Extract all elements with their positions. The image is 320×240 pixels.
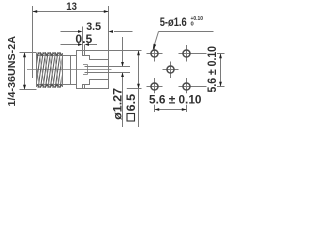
arrow 5.6 vertical down xyxy=(219,82,222,87)
crosshair hole center xyxy=(163,62,179,79)
insulator face edge xyxy=(70,56,72,84)
thread crest scallops bottom xyxy=(37,85,62,87)
extension line square 6.5 top xyxy=(109,50,142,52)
arrow 13 right xyxy=(104,10,109,13)
hole center xyxy=(167,66,174,73)
extension line 13 right xyxy=(108,6,110,50)
extension line 0.5 left xyxy=(82,35,84,56)
svg-text:5-ø1.6: 5-ø1.6 xyxy=(160,17,187,29)
svg-text:0: 0 xyxy=(191,21,194,27)
thread cross hatching light xyxy=(35,52,65,88)
extension line 5.6 vertical bottom xyxy=(195,86,225,88)
crosshair hole top-right xyxy=(179,45,196,62)
contact slot detail xyxy=(83,65,88,75)
arrow 3.5 left xyxy=(78,30,83,33)
body outline square flange xyxy=(77,51,109,89)
extension line 0.5 right xyxy=(84,45,86,56)
dimension line 13 xyxy=(33,11,109,13)
dimension line 0.5 right stub xyxy=(89,44,97,46)
dimension line 0.5 left stub xyxy=(61,44,79,46)
centerline of connector axis xyxy=(27,69,112,71)
hole bottom-right xyxy=(183,83,190,90)
thread root line top xyxy=(37,55,63,57)
internal step edge bottom xyxy=(85,80,109,85)
svg-text:ø1.27: ø1.27 xyxy=(113,88,125,120)
thread left end face xyxy=(36,53,38,87)
arrow 13 left xyxy=(33,10,38,13)
extension line thread OD bottom xyxy=(20,89,37,91)
leader underline xyxy=(159,31,214,33)
crosshair hole bottom-right xyxy=(179,78,196,112)
dimension line 5.6 vertical xyxy=(220,54,222,87)
dimension line thread OD xyxy=(24,53,26,90)
svg-text:5.6 ± 0.10: 5.6 ± 0.10 xyxy=(149,92,202,106)
dimension line 5.6 horizontal xyxy=(155,109,187,111)
dimension line 3.5 right stub xyxy=(114,31,133,33)
hole bottom-left xyxy=(151,83,158,90)
leader arrowhead xyxy=(153,44,157,51)
extension line thread OD top xyxy=(20,52,37,54)
svg-text:0.5: 0.5 xyxy=(75,32,92,46)
thread helix hatching xyxy=(33,52,65,88)
svg-text:5.6 ± 0.10: 5.6 ± 0.10 xyxy=(207,46,219,93)
arrow dia 1.27 down xyxy=(121,62,124,67)
arrow thread OD down xyxy=(23,85,26,90)
arrow 3.5 right xyxy=(109,30,114,33)
groove bottom xyxy=(83,85,85,89)
arrow 5.6 vertical up xyxy=(219,54,222,59)
center pin bottom edge xyxy=(85,72,131,74)
thread crest scallops top xyxy=(37,53,62,55)
arrow 5.6 horizontal left xyxy=(155,108,160,111)
extension line square 6.5 bottom xyxy=(127,88,142,90)
extension line 13 left xyxy=(32,6,34,78)
extension line 5.6 vertical top xyxy=(195,53,225,55)
dimension line square 6.5 xyxy=(138,51,140,128)
thread root line bottom xyxy=(37,84,63,86)
dimension line dia 1.27 upper xyxy=(122,37,124,66)
crosshair hole top-left xyxy=(147,45,163,62)
extension line 3.5 at slot xyxy=(82,27,84,35)
white backing for vertical value label xyxy=(207,48,218,92)
arrow square 6.5 up xyxy=(137,51,140,56)
center pin top edge xyxy=(85,66,131,68)
neck top edge xyxy=(63,55,77,57)
arrow dia 1.27 up xyxy=(121,73,124,78)
dimension line 3.5 left stub xyxy=(61,31,79,33)
arrow 0.5 left xyxy=(78,43,83,46)
groove top xyxy=(83,51,85,56)
neck bottom edge xyxy=(63,84,77,86)
svg-text:6.5: 6.5 xyxy=(126,93,138,111)
thread right end edge xyxy=(62,53,64,87)
svg-text:1/4-36UNS-2A: 1/4-36UNS-2A xyxy=(6,36,18,107)
arrow square 6.5 down xyxy=(137,84,140,89)
internal step edge top xyxy=(85,56,109,60)
arrow 5.6 horizontal right xyxy=(182,108,187,111)
svg-text:3.5: 3.5 xyxy=(86,21,101,33)
svg-text:13: 13 xyxy=(66,1,77,13)
dimension line dia 1.27 lower xyxy=(122,73,124,127)
arrow thread OD up xyxy=(23,53,26,58)
square symbol of 6.5 label xyxy=(127,114,135,122)
arrow 0.5 right xyxy=(85,43,90,46)
leader diagonal xyxy=(155,32,159,45)
hole top-right xyxy=(183,50,190,57)
crosshair hole bottom-left xyxy=(147,78,163,112)
hole top-left xyxy=(151,50,158,57)
